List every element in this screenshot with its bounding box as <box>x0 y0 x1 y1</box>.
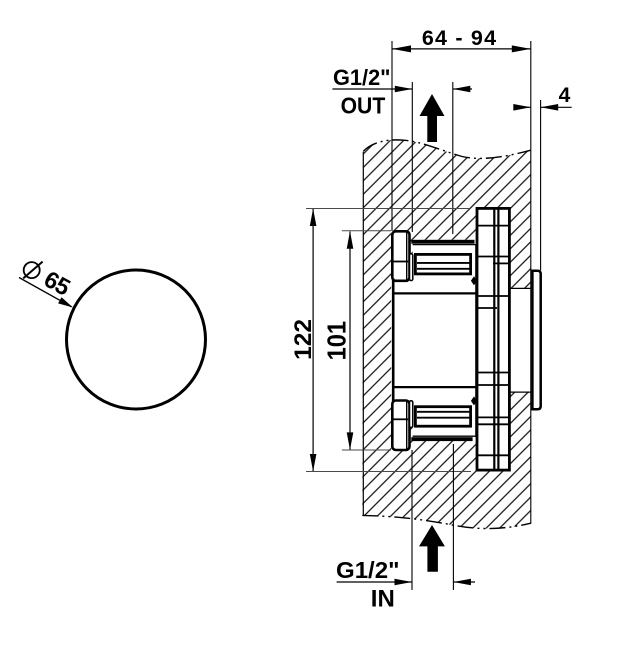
flange line b <box>478 256 508 258</box>
flow arrow bottom <box>419 525 445 572</box>
diameter symbol <box>24 262 40 278</box>
stub top inner edge line <box>406 232 408 279</box>
flange line c <box>493 262 508 264</box>
dimension 122 line <box>312 209 314 472</box>
svg-text:101: 101 <box>322 321 352 361</box>
diameter leader arrow <box>58 297 73 307</box>
dimension 101 bottom extension line <box>342 449 391 451</box>
dimension 64-94 left arrow <box>392 45 411 52</box>
valve inlet stub top <box>392 231 409 280</box>
seal bottom <box>471 396 477 405</box>
flange line g <box>478 384 508 386</box>
svg-text:OUT: OUT <box>341 92 386 118</box>
dimension 64-94 line <box>392 48 531 50</box>
body top thick bar <box>411 240 474 244</box>
wall section hatch <box>362 140 531 529</box>
dimension 101 top extension line <box>342 230 391 232</box>
G1/2 IN right tail <box>453 581 475 583</box>
stub bottom connector strip <box>410 401 413 428</box>
cartridge top line 1 <box>417 262 470 264</box>
flange inner vertical line 2 <box>497 210 499 470</box>
svg-text:IN: IN <box>371 586 395 613</box>
G1/2 OUT right tail <box>453 88 472 90</box>
dimension 4 right arrow <box>541 104 559 111</box>
valve cutout white: body <box>413 240 477 441</box>
flow arrow top <box>420 94 445 142</box>
flange line j <box>478 454 508 456</box>
dimension 122 bottom arrow <box>310 454 317 472</box>
G1/2 OUT extension line right <box>452 82 454 234</box>
G1/2 IN extension line left <box>411 450 413 590</box>
flange line a <box>478 225 508 227</box>
flange inner vertical line 1 <box>493 210 495 470</box>
wall left edge <box>362 152 364 516</box>
stub top notch line <box>394 261 409 263</box>
cartridge bottom line 2 <box>417 417 470 419</box>
G1/2 OUT left arrow <box>395 86 413 93</box>
dimension 101 top arrow <box>347 231 354 249</box>
stub bottom inner edge line <box>406 402 408 450</box>
dimension 4 right tail <box>541 106 572 108</box>
dimension 122 top extension line <box>306 208 471 210</box>
valve cutout white: strip column <box>409 254 413 428</box>
body bottom line <box>413 435 477 437</box>
flange line h <box>478 416 508 418</box>
dimension 4 left arrow <box>513 104 531 111</box>
dimension 64-94 right arrow <box>512 45 531 52</box>
wall bottom break line <box>362 515 531 528</box>
neck bottom line <box>509 391 530 393</box>
dimension 4 extension line <box>540 100 542 270</box>
valve cutout white: stubs column <box>391 231 410 449</box>
dimension 122 top arrow <box>310 209 317 227</box>
svg-text:122: 122 <box>290 319 317 360</box>
seal top <box>471 276 477 285</box>
body right edge <box>475 244 477 437</box>
G1/2 OUT right arrow <box>453 86 471 93</box>
dimension 122 bottom extension line <box>306 471 471 473</box>
flange line e <box>478 307 497 309</box>
cover plate <box>532 271 540 410</box>
dimension 4 line left part <box>514 106 531 108</box>
svg-text:4: 4 <box>559 84 571 107</box>
dimension 101 bottom arrow <box>347 432 354 450</box>
cartridge top line 2 <box>417 268 470 270</box>
dimension 64-94 left extension line <box>391 41 393 231</box>
wall face / 64-94 right extension line <box>530 41 532 524</box>
G1/2 IN extension line right <box>452 444 454 590</box>
cartridge bottom line 1 <box>417 411 470 413</box>
valve cutout white: neck <box>509 288 530 392</box>
svg-text:G1/2": G1/2" <box>336 557 400 583</box>
G1/2 IN right arrow <box>453 579 471 586</box>
cartridge bottom <box>415 407 470 427</box>
diameter leader line <box>19 278 72 307</box>
G1/2 OUT leader line <box>332 88 412 90</box>
handle circle front view <box>67 270 206 409</box>
stub bottom notch line <box>394 418 409 420</box>
body cavity bottom line <box>392 386 476 388</box>
svg-text:G1/2": G1/2" <box>333 65 391 90</box>
valve cutout white: flange <box>477 208 509 470</box>
body cavity top line <box>392 292 476 294</box>
G1/2 OUT extension line left <box>411 82 413 232</box>
body left edge <box>392 279 395 403</box>
dimension 101 line <box>349 232 351 450</box>
G1/2 IN left arrow <box>395 579 413 586</box>
neck top line <box>509 287 530 289</box>
G1/2 IN leader line <box>337 581 412 583</box>
svg-text:64 - 94: 64 - 94 <box>422 26 497 50</box>
flange line f <box>478 372 508 374</box>
flange line i <box>478 423 508 425</box>
wall top break line <box>363 140 531 159</box>
cartridge top <box>415 254 470 274</box>
flange line d <box>478 295 508 297</box>
stub top connector strip <box>410 254 413 281</box>
body bottom thick bar <box>411 437 472 441</box>
valve inlet stub bottom <box>392 401 409 451</box>
mounting flange <box>477 208 509 470</box>
body top line <box>413 244 477 246</box>
